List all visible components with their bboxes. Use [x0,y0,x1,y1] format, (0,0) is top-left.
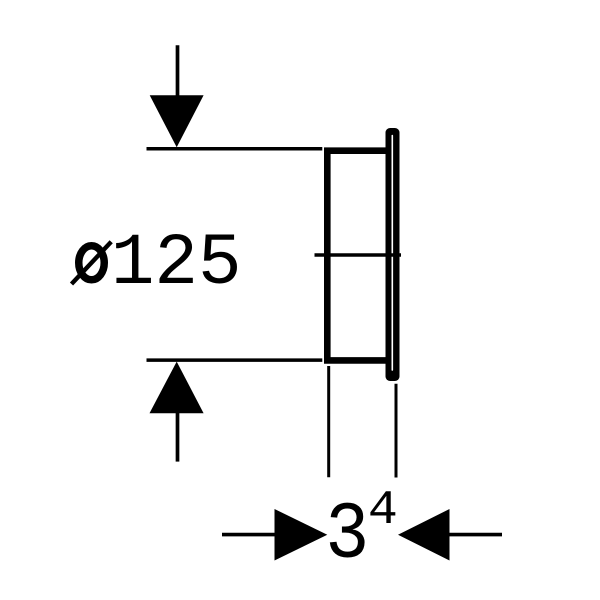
up arrow head [150,362,204,414]
depth dimension left stem [222,533,275,537]
up arrow stem [176,412,180,462]
part body outline (side view) [327,151,392,361]
down arrow stem [176,45,180,110]
down arrow head [150,95,204,147]
flange bar [386,128,400,381]
depth dimension right-pointing arrow head [275,509,328,561]
centerline [315,253,402,257]
svg-text:3: 3 [325,491,369,582]
depth dimension left-pointing arrow head [398,509,450,561]
top dimension line [147,147,323,151]
svg-text:4: 4 [368,484,398,538]
extension line left [327,366,330,477]
svg-text:125: 125 [111,223,242,306]
flange bar inner slit [391,136,393,371]
depth dimension right stem [449,533,502,537]
label ø (diameter symbol) [79,246,105,280]
extension line right [395,384,398,478]
bottom dimension line [147,358,323,362]
